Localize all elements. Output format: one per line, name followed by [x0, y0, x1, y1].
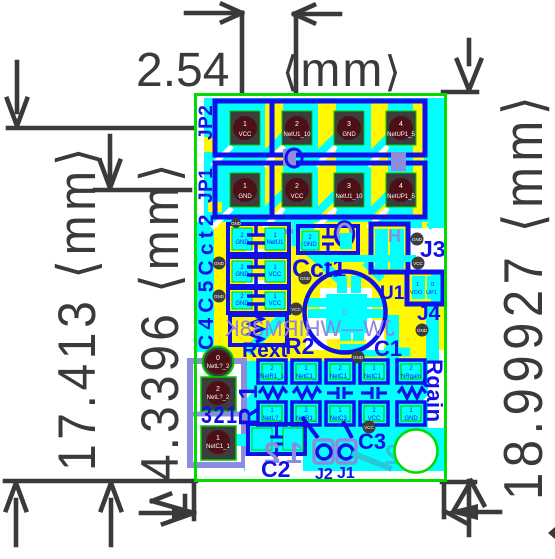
svg-text:1: 1 [416, 282, 419, 288]
svg-text:1: 1 [216, 435, 220, 442]
svg-text:VCC: VCC [291, 307, 301, 312]
svg-text:⟨mm⟩: ⟨mm⟩ [282, 44, 403, 97]
svg-text:2: 2 [295, 183, 299, 190]
svg-text:17.413 ⟨mm⟩: 17.413 ⟨mm⟩ [47, 143, 107, 471]
svg-text:GND: GND [342, 132, 356, 138]
svg-text:0: 0 [431, 282, 434, 288]
svg-text:NetUP1_5: NetUP1_5 [387, 132, 415, 138]
svg-text:NetL?_2: NetL?_2 [207, 395, 230, 401]
svg-text:VCC: VCC [269, 301, 282, 307]
svg-text:R1: R1 [233, 377, 263, 426]
svg-text:NRgain: NRgain [401, 374, 421, 380]
svg-text:GND: GND [235, 301, 249, 307]
svg-text:NetC1_: NetC1_ [296, 374, 317, 380]
svg-text:C2: C2 [261, 456, 290, 482]
svg-text:4.3396 ⟨mm⟩: 4.3396 ⟨mm⟩ [130, 160, 190, 481]
svg-text:NetU1: NetU1 [266, 240, 284, 246]
svg-text:VCC: VCC [413, 261, 423, 266]
svg-text:GND: GND [412, 237, 423, 242]
svg-text:3: 3 [347, 121, 351, 128]
svg-text:2: 2 [295, 121, 299, 128]
svg-text:VCC: VCC [291, 194, 304, 200]
svg-text:GND: GND [235, 240, 249, 246]
svg-text:GND: GND [214, 261, 225, 266]
svg-text:J4: J4 [417, 302, 441, 325]
svg-text:Rgain: Rgain [422, 359, 447, 423]
svg-text:NetL?_2: NetL?_2 [207, 364, 230, 370]
svg-text:C4C5Cct2: C4C5Cct2 [195, 209, 218, 350]
svg-text:18.99927 ⟨mm⟩: 18.99927 ⟨mm⟩ [493, 91, 554, 500]
svg-text:GND: GND [303, 242, 317, 248]
svg-text:VCC: VCC [364, 425, 374, 430]
svg-text:NetU1_10: NetU1_10 [335, 194, 363, 200]
svg-text:JP2: JP2 [196, 105, 217, 140]
svg-text:1: 1 [243, 183, 247, 190]
svg-text:VCC: VCC [239, 132, 252, 138]
svg-text:1: 1 [243, 121, 247, 128]
svg-text:2.54: 2.54 [136, 44, 229, 97]
svg-text:NetR1_1: NetR1_1 [260, 374, 284, 380]
svg-text:GND: GND [404, 416, 418, 422]
svg-text:NetC1_: NetC1_ [364, 374, 385, 380]
svg-text:4: 4 [399, 183, 403, 190]
svg-text:0: 0 [216, 355, 220, 362]
svg-text:GND: GND [238, 194, 252, 200]
svg-text:C3: C3 [358, 429, 386, 454]
svg-text:VOO: VOO [410, 290, 423, 296]
svg-text:J3: J3 [420, 236, 446, 262]
svg-text:VCC: VCC [269, 272, 282, 278]
svg-text:4: 4 [399, 121, 403, 128]
svg-text:NetC1_: NetC1_ [330, 374, 351, 380]
svg-text:GND: GND [300, 276, 311, 281]
svg-text:JW—WHIRM38K: JW—WHIRM38K [225, 316, 395, 341]
svg-text:U1: U1 [380, 283, 405, 304]
svg-text:GND: GND [417, 328, 428, 333]
svg-text:H: H [388, 226, 401, 246]
svg-text:NetUP1_5: NetUP1_5 [387, 194, 415, 200]
svg-text:GND: GND [231, 221, 242, 226]
svg-text:2: 2 [216, 386, 220, 393]
svg-text:NetU1_10: NetU1_10 [283, 132, 311, 138]
svg-text:GND: GND [353, 355, 364, 360]
svg-text:NetC3_: NetC3_ [330, 416, 351, 422]
svg-text:GND: GND [235, 272, 249, 278]
svg-text:NetL?_: NetL?_ [262, 416, 282, 422]
svg-text:GND: GND [214, 294, 225, 299]
svg-text:3: 3 [347, 183, 351, 190]
svg-text:UP1: UP1 [426, 290, 437, 296]
svg-text:NetC1_1: NetC1_1 [206, 444, 230, 450]
svg-text:JP1: JP1 [196, 168, 217, 203]
